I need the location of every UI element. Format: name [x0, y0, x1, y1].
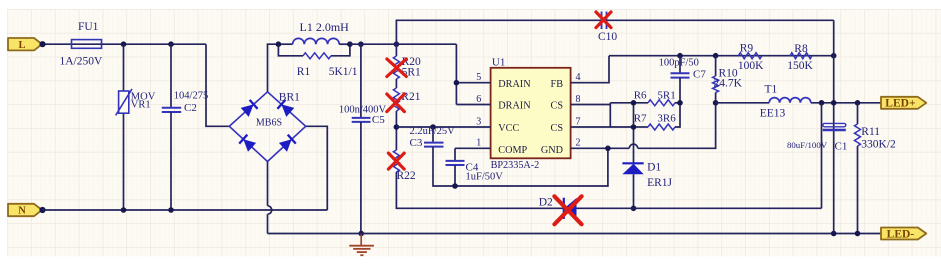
transformer T1 EE13 — [716, 102, 770, 104]
resistor R8 — [790, 53, 812, 59]
svg-text:C1: C1 — [835, 141, 848, 153]
svg-text:1: 1 — [476, 138, 481, 149]
svg-text:D2: D2 — [539, 196, 553, 208]
svg-text:1A/250V: 1A/250V — [60, 55, 104, 67]
svg-text:80uF/100V: 80uF/100V — [787, 140, 828, 150]
svg-text:3R6: 3R6 — [657, 112, 676, 124]
svg-text:C5: C5 — [372, 114, 385, 126]
pin 1 COMP wire — [455, 147, 491, 149]
wire L to fuse — [42, 43, 72, 45]
wire bridge bottom to rail (hop over N) — [267, 162, 269, 206]
wire top (C10 net) — [396, 20, 601, 44]
svg-text:BP2335A-2: BP2335A-2 — [491, 160, 540, 171]
svg-text:R6: R6 — [634, 89, 647, 101]
bridge diode right-top — [281, 104, 294, 117]
svg-text:COMP: COMP — [498, 145, 527, 156]
port N — [8, 204, 42, 216]
capacitor C7 — [677, 53, 683, 59]
resistor R7 — [634, 126, 649, 128]
pin 3 VCC wire — [396, 126, 490, 128]
svg-text:ER1J: ER1J — [647, 177, 672, 189]
svg-text:FB: FB — [551, 79, 564, 90]
capacitor C10 — [601, 12, 603, 30]
port L — [8, 38, 42, 50]
fuse FU1 — [72, 43, 102, 45]
svg-text:LED-: LED- — [887, 228, 915, 240]
bridge diode bottom-right — [279, 139, 292, 152]
diode D1 ER1J — [622, 162, 643, 164]
svg-text:D1: D1 — [647, 162, 661, 174]
FB divider line — [609, 55, 834, 57]
svg-text:6: 6 — [476, 94, 481, 105]
resistor R11 — [855, 100, 861, 106]
CS vertical to D1 — [633, 103, 635, 164]
wire DC+ to drain corner — [350, 43, 457, 45]
diode D2 (crossed out) — [563, 198, 565, 219]
svg-text:3: 3 — [476, 116, 481, 127]
svg-text:U1: U1 — [492, 57, 505, 69]
bridge diode bottom-left — [243, 139, 256, 152]
svg-text:8: 8 — [576, 94, 581, 105]
svg-text:C10: C10 — [598, 31, 617, 43]
pin 2 GND wire (hop over CS vertical) — [571, 147, 630, 149]
pin 8 wire — [571, 104, 611, 106]
svg-text:R8: R8 — [794, 43, 808, 55]
svg-text:C7: C7 — [693, 68, 706, 80]
svg-text:CS: CS — [551, 123, 564, 134]
svg-text:150K: 150K — [787, 60, 813, 72]
vertical VIN+ right — [833, 20, 835, 233]
resistor R1 (parallel loop) — [278, 44, 303, 56]
resistor R10 — [713, 53, 719, 59]
capacitor C3 — [430, 124, 436, 130]
varistor VR1 (MOV) — [123, 44, 125, 91]
svg-text:MB6S: MB6S — [256, 117, 282, 128]
node VCC junction — [394, 124, 400, 130]
resistor R9 — [738, 53, 762, 59]
pin 5 — [455, 44, 457, 104]
wire fuse to corner — [102, 43, 207, 45]
svg-text:EE13: EE13 — [760, 108, 786, 120]
svg-text:N: N — [18, 206, 26, 217]
svg-text:100K: 100K — [738, 60, 764, 72]
node dots on N line — [121, 207, 127, 213]
svg-text:2: 2 — [576, 138, 581, 149]
svg-text:C3: C3 — [410, 137, 423, 149]
svg-text:5R1: 5R1 — [657, 89, 675, 101]
pin 7 wire — [571, 126, 634, 128]
inductor L1 — [278, 43, 292, 45]
svg-text:4: 4 — [576, 72, 581, 83]
not-fitted X over D2 — [554, 196, 581, 224]
svg-text:LED+: LED+ — [885, 98, 915, 110]
svg-text:R7: R7 — [634, 112, 647, 124]
svg-text:R1: R1 — [297, 66, 311, 78]
svg-text:24.7K: 24.7K — [714, 78, 743, 90]
wire bridge top to DC+ — [268, 44, 279, 92]
node DC+ dots — [276, 41, 282, 47]
resistor R21 — [393, 88, 399, 111]
svg-text:DRAIN: DRAIN — [498, 101, 531, 112]
pin 6 — [456, 104, 490, 106]
not-fitted X over R20 — [387, 59, 406, 77]
wire down to bridge left — [206, 44, 229, 126]
svg-text:330K/2: 330K/2 — [861, 139, 896, 151]
svg-text:DRAIN: DRAIN — [498, 79, 531, 90]
svg-text:1uF/50V: 1uF/50V — [466, 172, 504, 183]
svg-text:L: L — [18, 40, 25, 51]
node: L-fuse junction dots — [39, 41, 45, 47]
resistor R20 — [395, 44, 397, 56]
capacitor C1 — [819, 100, 825, 106]
svg-text:R22: R22 — [397, 170, 416, 182]
capacitor C2 — [170, 44, 172, 107]
not-fitted X over R22 — [388, 153, 404, 169]
bridge diode left-top — [241, 104, 254, 117]
svg-text:VR1: VR1 — [131, 99, 151, 110]
svg-text:C2: C2 — [184, 102, 197, 114]
svg-text:BR1: BR1 — [279, 91, 300, 103]
svg-text:VCC: VCC — [498, 123, 519, 134]
pin 4 FB wire — [571, 56, 609, 83]
svg-text:T1: T1 — [765, 84, 778, 96]
svg-text:CS: CS — [551, 101, 564, 112]
bottom rail — [268, 233, 882, 235]
svg-text:GND: GND — [541, 145, 563, 156]
svg-text:FU1: FU1 — [78, 21, 99, 33]
resistor R6 — [610, 102, 648, 104]
svg-text:2.2uF/25V: 2.2uF/25V — [410, 126, 456, 137]
svg-text:7: 7 — [576, 116, 581, 127]
svg-text:104/275: 104/275 — [174, 90, 208, 101]
ground symbol — [358, 231, 364, 237]
svg-text:5K1/1: 5K1/1 — [329, 66, 358, 78]
bridge rectifier BR1 MB6S — [229, 92, 305, 162]
svg-text:100pF/50: 100pF/50 — [659, 58, 699, 69]
not-fitted X over C10 — [596, 12, 611, 28]
resistor R22 — [395, 127, 397, 150]
svg-text:R9: R9 — [740, 43, 754, 55]
svg-text:L1 2.0mH: L1 2.0mH — [300, 20, 350, 34]
port LED- — [881, 228, 926, 240]
svg-text:R11: R11 — [861, 126, 880, 138]
not-fitted X over R21 — [387, 94, 405, 112]
capacitor C5 — [360, 44, 362, 118]
wire N line — [39, 207, 45, 213]
svg-text:5: 5 — [476, 72, 481, 83]
op-amp U1 BP2335A-2 — [491, 68, 571, 159]
capacitor C4 — [454, 148, 456, 161]
port LED+ — [881, 97, 926, 109]
